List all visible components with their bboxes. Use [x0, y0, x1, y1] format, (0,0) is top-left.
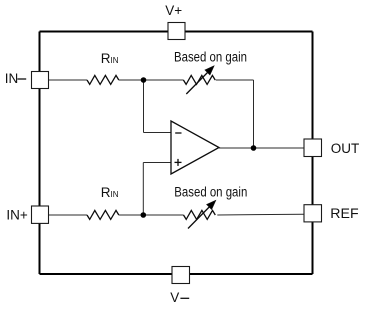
- wire: node A down to inverting input: [143, 80, 145, 133]
- svg-text:RIN: RIN: [101, 51, 119, 66]
- wire: bottom variable resistor to REF pin: [217, 213, 304, 216]
- resistor RIN (top): [87, 75, 119, 84]
- svg-text:V: V: [170, 290, 179, 305]
- svg-text:Based on gain: Based on gain: [174, 50, 247, 65]
- wire: RIN to bottom gain resistor through node B: [119, 214, 184, 216]
- wire: RIN to top gain resistor through node A: [119, 79, 184, 81]
- node B junction dot: [141, 212, 147, 218]
- wiper arrow of top variable resistor: [186, 66, 214, 94]
- pin box V+: [168, 23, 185, 40]
- wire: bottom rail (V- rail): [40, 273, 313, 275]
- op-amp U1 triangle: [171, 121, 219, 174]
- resistor RIN (bottom): [87, 210, 119, 219]
- wire: right rail (top corner through OUT/REF to bottom corner): [312, 32, 314, 275]
- svg-text:Based on gain: Based on gain: [174, 184, 247, 199]
- wire: op-amp output to OUT pin: [219, 147, 304, 149]
- variable resistor (bottom, gain-set): [184, 210, 216, 219]
- pin box REF: [304, 205, 322, 222]
- wire: top variable resistor to feedback corner: [216, 79, 254, 81]
- pin box IN+: [32, 206, 49, 223]
- pin box V-: [172, 267, 190, 284]
- pin box OUT: [304, 139, 322, 157]
- wire: IN- pin to RIN (top): [49, 79, 88, 81]
- op-amp non-inverting (+) pin mark: [175, 159, 182, 166]
- variable resistor (top, gain-set): [183, 75, 215, 84]
- wire: into non-inverting input: [143, 162, 171, 164]
- label V- (dash): [180, 297, 189, 299]
- wire: left rail (through IN- and IN+ pins): [39, 32, 41, 275]
- wire: feedback drop to output node: [253, 80, 255, 148]
- wire: node B up to non-inverting input: [142, 163, 144, 216]
- label IN- (dash): [17, 78, 26, 80]
- output node junction dot: [251, 145, 257, 151]
- wire: into inverting input: [144, 132, 172, 134]
- svg-text:V+: V+: [165, 3, 182, 18]
- pin box IN-: [32, 72, 49, 89]
- svg-text:IN: IN: [5, 71, 18, 86]
- op-amp inverting (-) pin mark: [175, 132, 181, 134]
- svg-text:RIN: RIN: [101, 185, 119, 200]
- wiper arrow of bottom variable resistor: [188, 201, 216, 229]
- node A junction dot: [141, 77, 147, 83]
- wire: top rail (V+ rail, left corner to right corner): [40, 31, 313, 33]
- wire: IN+ pin to RIN (bottom): [49, 214, 88, 216]
- svg-text:OUT: OUT: [331, 141, 360, 156]
- svg-text:IN+: IN+: [6, 207, 28, 222]
- svg-text:REF: REF: [330, 206, 358, 221]
